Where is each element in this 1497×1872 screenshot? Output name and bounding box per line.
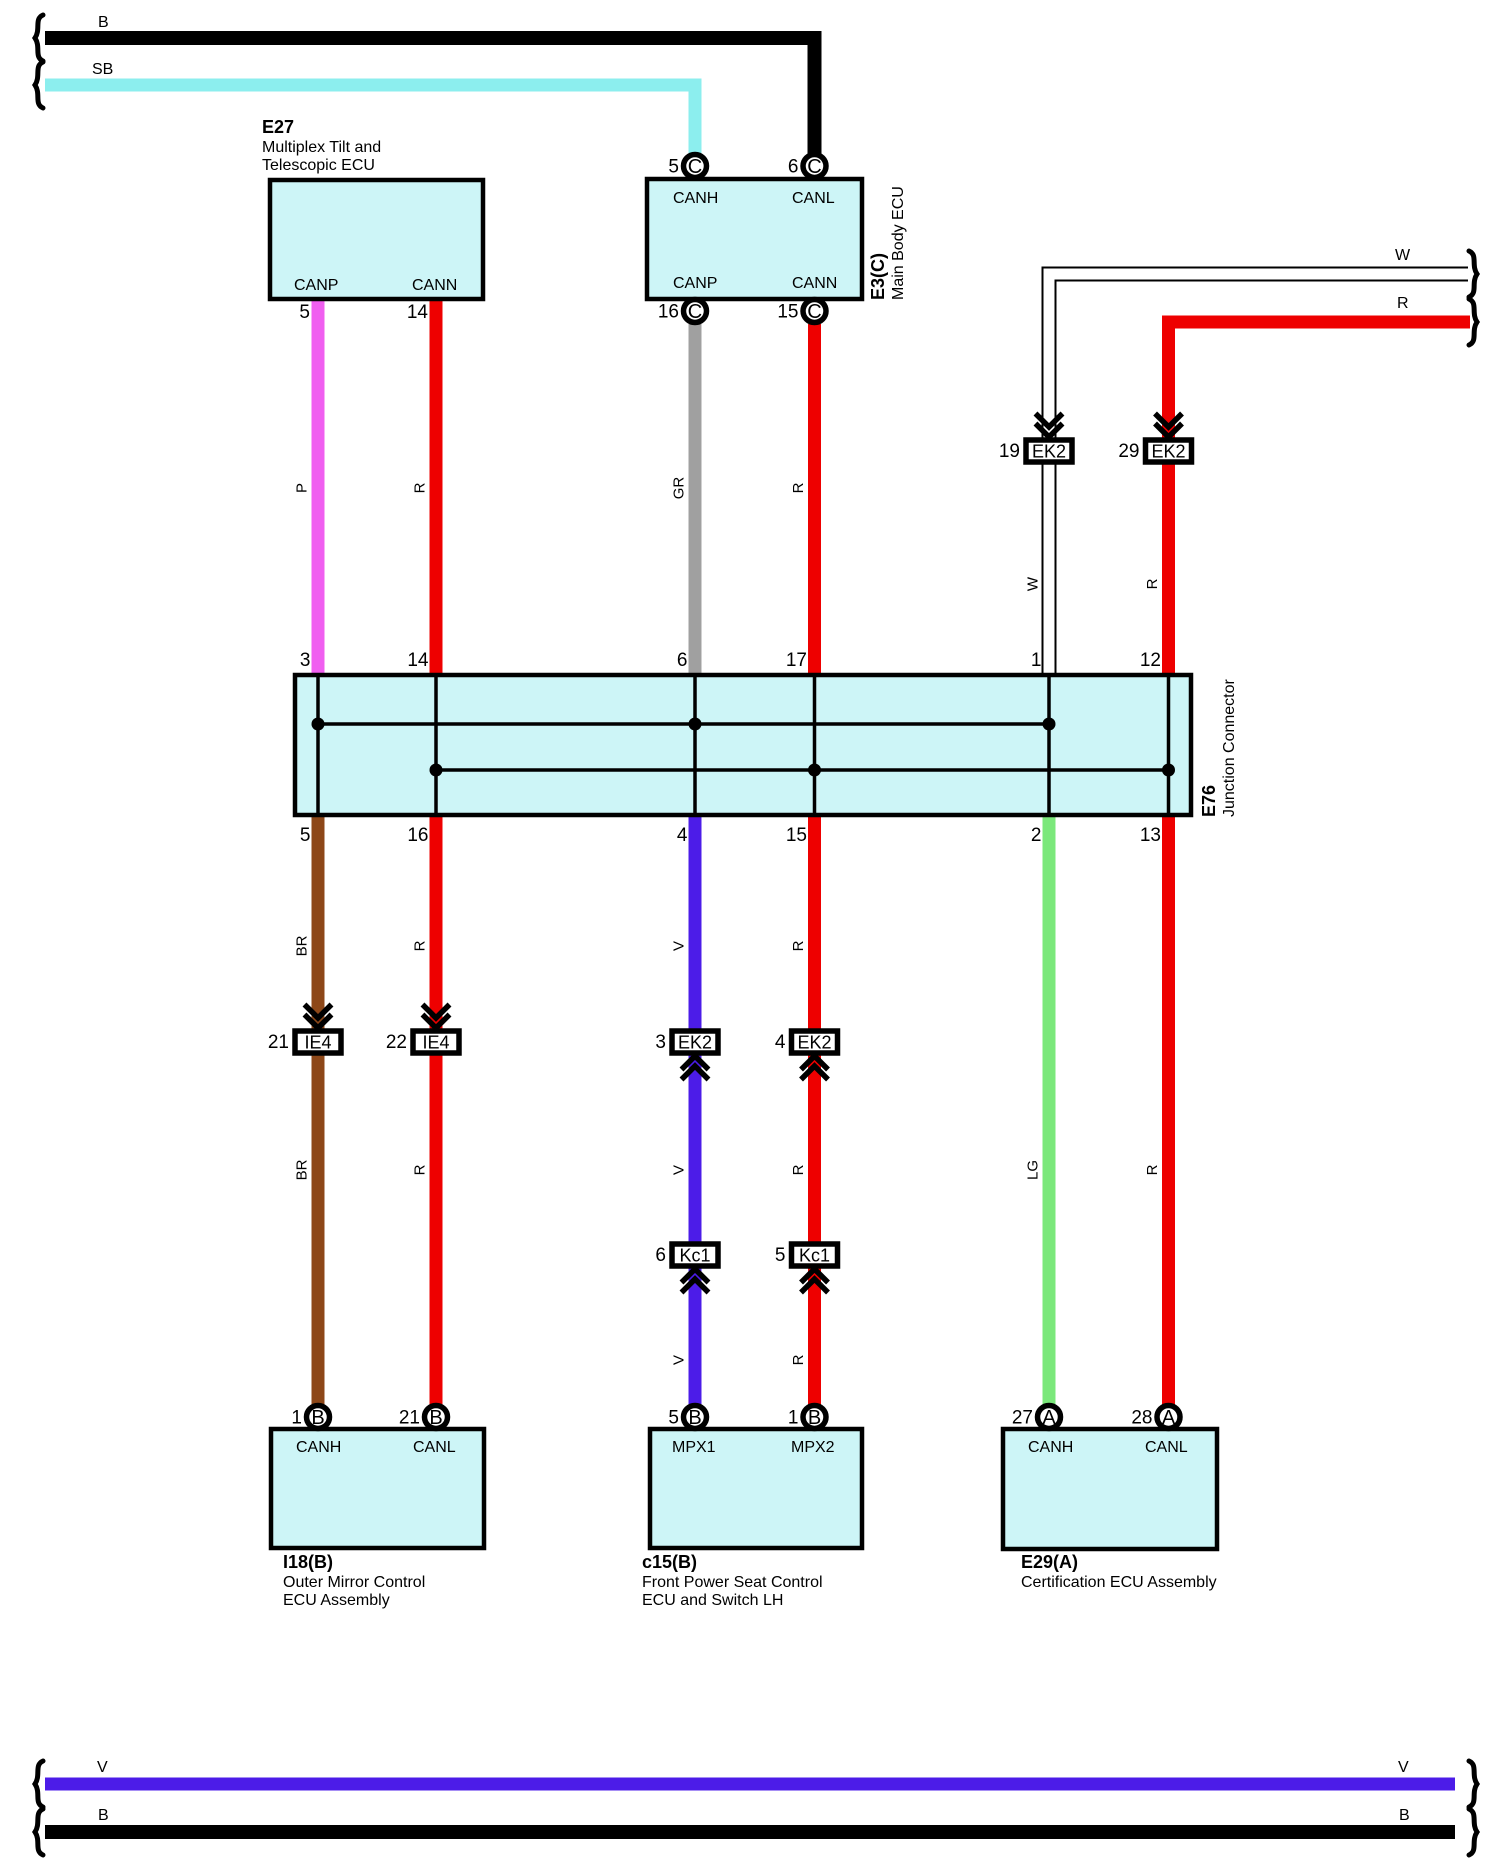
- svg-text:IE4: IE4: [304, 1033, 331, 1053]
- wire color label R: [790, 1354, 807, 1365]
- svg-text:Front Power Seat Control: Front Power Seat Control: [642, 1574, 823, 1591]
- svg-text:CANN: CANN: [412, 277, 457, 294]
- svg-text:Junction Connector: Junction Connector: [1221, 678, 1238, 817]
- junction dot upper bus x=1049: [1043, 718, 1056, 731]
- wire W top right: [1049, 274, 1468, 675]
- svg-text:ECU Assembly: ECU Assembly: [283, 1592, 390, 1609]
- connector IE4 pin 22: [423, 1005, 450, 1019]
- svg-text:MPX2: MPX2: [791, 1439, 835, 1456]
- svg-text:A: A: [1042, 1407, 1056, 1429]
- svg-text:R: R: [411, 1164, 428, 1175]
- svg-text:3: 3: [655, 1032, 666, 1053]
- svg-text:EK2: EK2: [678, 1033, 712, 1053]
- break symbol left of wire SB: [35, 62, 43, 108]
- svg-text:SB: SB: [92, 61, 113, 78]
- svg-text:5: 5: [300, 825, 311, 846]
- break symbol right of wire W: [1469, 251, 1477, 297]
- svg-text:15: 15: [786, 825, 807, 846]
- wire color label R: [411, 940, 428, 951]
- svg-text:CANH: CANH: [673, 190, 718, 207]
- wire V col3 bottom: [689, 815, 702, 1406]
- wire LG col5 bottom: [1043, 815, 1056, 1406]
- svg-text:V: V: [670, 1355, 687, 1365]
- wire color label P: [293, 483, 310, 493]
- svg-text:29: 29: [1118, 441, 1139, 462]
- svg-text:Multiplex Tilt and: Multiplex Tilt and: [262, 139, 381, 156]
- svg-text:W: W: [1395, 247, 1411, 264]
- svg-text:MPX1: MPX1: [672, 1439, 716, 1456]
- wire V bottom bus: [45, 1778, 1455, 1791]
- connector EK2 pin 19: [1036, 414, 1063, 428]
- svg-text:B: B: [688, 1407, 701, 1429]
- wire color label W: [1024, 576, 1041, 591]
- svg-text:B: B: [429, 1407, 442, 1429]
- wire color label GR: [670, 477, 687, 500]
- svg-text:3: 3: [300, 650, 311, 671]
- svg-text:Outer Mirror Control: Outer Mirror Control: [283, 1574, 425, 1591]
- wire color label R: [411, 1164, 428, 1175]
- junction dot upper bus x=695: [689, 718, 702, 731]
- pin 28 (A): [1157, 1406, 1180, 1429]
- svg-text:1: 1: [291, 1408, 302, 1429]
- svg-text:B: B: [311, 1407, 324, 1429]
- svg-text:19: 19: [999, 441, 1020, 462]
- svg-text:14: 14: [407, 650, 429, 671]
- svg-text:CANH: CANH: [296, 1439, 341, 1456]
- svg-text:R: R: [1144, 578, 1161, 589]
- svg-text:17: 17: [786, 650, 807, 671]
- break symbol right of wire R: [1469, 299, 1477, 345]
- svg-text:c15(B): c15(B): [642, 1552, 697, 1572]
- svg-text:R: R: [411, 482, 428, 493]
- svg-text:V: V: [1398, 1759, 1409, 1776]
- ECU c15(B) Front Power Seat Control ECU and Switch LH: [650, 1429, 862, 1548]
- svg-text:28: 28: [1131, 1408, 1152, 1429]
- svg-text:6: 6: [788, 157, 799, 178]
- wire color label R: [1144, 1164, 1161, 1175]
- junction dot upper bus x=318: [312, 718, 325, 731]
- wire BR col1 bottom: [312, 815, 325, 1406]
- svg-text:V: V: [670, 941, 687, 951]
- svg-text:5: 5: [668, 1408, 679, 1429]
- E76 internal pin line x=1168.5: [1167, 675, 1171, 815]
- svg-text:5: 5: [299, 302, 310, 323]
- break symbol right of wire B bottom: [1469, 1809, 1477, 1855]
- svg-text:CANL: CANL: [413, 1439, 456, 1456]
- E76 internal pin line x=318: [316, 675, 320, 815]
- junction dot lower bus x=814.5: [808, 764, 821, 777]
- ECU E3(C) Main Body ECU: [647, 179, 862, 299]
- wire color label LG: [1024, 1160, 1041, 1180]
- svg-text:B: B: [808, 1407, 821, 1429]
- wire SB: [45, 85, 695, 154]
- svg-text:12: 12: [1140, 650, 1161, 671]
- break symbol left of wire B bottom: [35, 1809, 43, 1855]
- wire P col1: [312, 297, 325, 675]
- svg-text:Kc1: Kc1: [799, 1246, 830, 1266]
- svg-text:6: 6: [655, 1245, 666, 1266]
- wire color label V: [670, 941, 687, 951]
- svg-text:16: 16: [658, 302, 679, 323]
- wire R col2 top: [430, 297, 443, 675]
- break symbol left of wire B: [35, 15, 43, 61]
- wire color label BR: [293, 1159, 310, 1180]
- svg-text:C: C: [688, 156, 702, 178]
- connector EK2 pin 4: [792, 1031, 838, 1053]
- svg-text:Certification ECU Assembly: Certification ECU Assembly: [1021, 1574, 1217, 1591]
- svg-text:C: C: [807, 301, 821, 323]
- svg-text:27: 27: [1012, 1408, 1033, 1429]
- svg-text:15: 15: [777, 302, 798, 323]
- svg-text:1: 1: [1031, 650, 1042, 671]
- svg-text:W: W: [1024, 576, 1041, 591]
- junction dot lower bus x=1168.5: [1162, 764, 1175, 777]
- svg-text:Main Body ECU: Main Body ECU: [890, 186, 907, 300]
- svg-text:5: 5: [775, 1245, 786, 1266]
- break symbol right of wire V bottom: [1469, 1761, 1477, 1807]
- wire R col4 top: [808, 324, 821, 675]
- wire B bottom bus: [45, 1825, 1455, 1839]
- pin 5 (B): [684, 1406, 707, 1429]
- svg-text:A: A: [1162, 1407, 1176, 1429]
- svg-text:R: R: [411, 940, 428, 951]
- svg-text:13: 13: [1140, 825, 1161, 846]
- svg-text:Kc1: Kc1: [679, 1246, 710, 1266]
- svg-text:E27: E27: [262, 117, 294, 137]
- E76 side label: [1199, 678, 1238, 817]
- wire R col6 bottom: [1162, 815, 1175, 1406]
- E3(C) side label: [868, 186, 907, 300]
- ECU E29(A) Certification ECU Assembly: [1003, 1429, 1217, 1549]
- pin 1 (B): [307, 1406, 330, 1429]
- connector Kc1 pin 6: [672, 1244, 718, 1266]
- svg-text:CANH: CANH: [1028, 1439, 1073, 1456]
- E76 CANH bus line: [318, 722, 1049, 726]
- E76 internal pin line x=436: [434, 675, 438, 815]
- pin 15 (C): [803, 300, 826, 323]
- wire color label V: [670, 1165, 687, 1175]
- svg-text:E3(C): E3(C): [868, 253, 888, 300]
- E76 internal pin line x=695: [693, 675, 697, 815]
- connector Kc1 pin 5: [792, 1244, 838, 1266]
- svg-text:R: R: [1144, 1164, 1161, 1175]
- pin 27 (A): [1038, 1406, 1061, 1429]
- svg-text:CANL: CANL: [1145, 1439, 1188, 1456]
- svg-text:6: 6: [677, 650, 688, 671]
- wire color label R: [1144, 578, 1161, 589]
- wire color label V: [670, 1355, 687, 1365]
- junction connector E76: [295, 675, 1191, 815]
- svg-text:E29(A): E29(A): [1021, 1552, 1078, 1572]
- svg-text:EK2: EK2: [1032, 442, 1066, 462]
- svg-text:BR: BR: [293, 935, 310, 956]
- ECU I18(B) Outer Mirror Control ECU Assembly: [271, 1429, 484, 1548]
- svg-text:1: 1: [788, 1408, 799, 1429]
- wire R top right: [1169, 322, 1471, 675]
- ECU E27 Multiplex Tilt and Telescopic ECU: [270, 180, 483, 299]
- pin 21 (B): [425, 1406, 448, 1429]
- svg-text:C: C: [807, 156, 821, 178]
- E76 CANL bus line: [436, 768, 1169, 772]
- svg-text:E76: E76: [1199, 785, 1219, 817]
- svg-text:EK2: EK2: [1151, 442, 1185, 462]
- connector IE4 pin 21: [305, 1005, 332, 1019]
- svg-text:R: R: [790, 1354, 807, 1365]
- svg-text:BR: BR: [293, 1159, 310, 1180]
- wire B top: [45, 38, 815, 154]
- svg-text:14: 14: [407, 302, 429, 323]
- svg-text:R: R: [790, 482, 807, 493]
- svg-text:R: R: [790, 940, 807, 951]
- E76 internal pin line x=1049: [1047, 675, 1051, 815]
- svg-text:5: 5: [668, 157, 679, 178]
- wire R col2 bottom: [430, 815, 443, 1406]
- wire R col4 bottom: [808, 815, 821, 1406]
- wire color label R: [411, 482, 428, 493]
- wire color label R: [790, 940, 807, 951]
- wire color label R: [790, 1164, 807, 1175]
- svg-text:Telescopic ECU: Telescopic ECU: [262, 157, 375, 174]
- junction dot lower bus x=436: [430, 764, 443, 777]
- svg-text:B: B: [98, 14, 109, 31]
- svg-text:R: R: [790, 1164, 807, 1175]
- svg-text:4: 4: [775, 1032, 786, 1053]
- svg-text:B: B: [1399, 1807, 1410, 1824]
- svg-text:CANN: CANN: [792, 275, 837, 292]
- wire color label BR: [293, 935, 310, 956]
- pin 16 (C): [684, 300, 707, 323]
- svg-text:V: V: [670, 1165, 687, 1175]
- svg-text:GR: GR: [670, 477, 687, 500]
- pin 5 (C): [684, 155, 707, 178]
- svg-text:B: B: [98, 1807, 109, 1824]
- svg-text:P: P: [293, 483, 310, 493]
- svg-text:LG: LG: [1024, 1160, 1041, 1180]
- connector EK2 pin 3: [672, 1031, 718, 1053]
- svg-text:CANP: CANP: [294, 277, 338, 294]
- pin 1 (B): [803, 1406, 826, 1429]
- svg-text:CANP: CANP: [673, 275, 717, 292]
- break symbol left of wire V bottom: [35, 1761, 43, 1807]
- svg-text:21: 21: [399, 1408, 420, 1429]
- pin 6 (C): [803, 155, 826, 178]
- svg-text:21: 21: [268, 1032, 289, 1053]
- svg-text:22: 22: [386, 1032, 407, 1053]
- svg-text:2: 2: [1031, 825, 1042, 846]
- svg-text:C: C: [688, 301, 702, 323]
- svg-text:CANL: CANL: [792, 190, 835, 207]
- svg-text:V: V: [97, 1759, 108, 1776]
- svg-text:EK2: EK2: [797, 1033, 831, 1053]
- E76 internal pin line x=814.5: [813, 675, 817, 815]
- svg-text:R: R: [1397, 295, 1409, 312]
- wire color label R: [790, 482, 807, 493]
- svg-text:IE4: IE4: [422, 1033, 449, 1053]
- svg-text:I18(B): I18(B): [283, 1552, 333, 1572]
- svg-text:ECU and Switch LH: ECU and Switch LH: [642, 1592, 783, 1609]
- svg-text:16: 16: [407, 825, 428, 846]
- svg-text:4: 4: [677, 825, 688, 846]
- connector EK2 pin 29: [1155, 414, 1182, 428]
- wire GR col3: [689, 324, 702, 675]
